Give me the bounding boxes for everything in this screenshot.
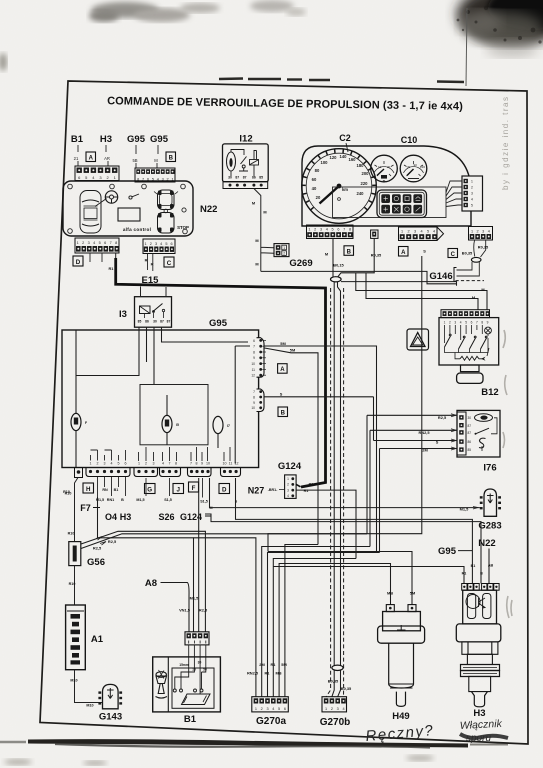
inner sub-box (140, 385, 208, 445)
speedometer dial (302, 149, 377, 224)
svg-text:A: A (280, 367, 285, 373)
svg-text:G270a: G270a (256, 716, 286, 727)
wire S to H3 pin B1 via G95 (236, 478, 473, 584)
svg-text:M10: M10 (70, 679, 77, 683)
svg-text:85: 85 (468, 448, 472, 452)
svg-text:4: 4 (93, 241, 95, 245)
wire S to I76 (374, 397, 458, 441)
display rectangle (118, 208, 140, 221)
scan smudge top-right blob (457, 0, 543, 57)
svg-text:20: 20 (316, 195, 321, 200)
svg-text:30: 30 (153, 320, 157, 324)
wire 2M to I76 (380, 449, 458, 553)
wire S from B strip (265, 396, 374, 398)
svg-text:7: 7 (253, 390, 255, 394)
svg-text:km: km (342, 187, 348, 192)
svg-text:R10: R10 (65, 492, 72, 496)
svg-text:R10: R10 (68, 532, 75, 536)
svg-text:sporu: sporu (466, 733, 491, 744)
wire R1 elbow from thick line (296, 484, 300, 486)
svg-text:RN2,5: RN2,5 (247, 671, 259, 676)
wire R2,5 upper from G56 (81, 534, 367, 549)
svg-text:3: 3 (88, 241, 90, 245)
svg-text:-BR1-: -BR1- (268, 488, 278, 492)
svg-text:2: 2 (150, 242, 152, 246)
svg-text:N27: N27 (248, 486, 265, 496)
wire M10 battery to G143 (75, 670, 103, 703)
connector A side strip (251, 338, 266, 378)
connector letter A (278, 364, 288, 374)
connector letter G (145, 484, 156, 494)
svg-text:S1,5: S1,5 (200, 500, 208, 504)
svg-text:87: 87 (235, 176, 239, 180)
switch button (457, 373, 483, 383)
wire G270a pin3 to I76 (268, 553, 380, 697)
wire to H49 5M (268, 552, 412, 605)
svg-text:240: 240 (357, 191, 365, 196)
svg-text:2: 2 (449, 320, 451, 324)
svg-text:12: 12 (235, 462, 239, 466)
wire bracket to oval (457, 262, 480, 276)
svg-text:5: 5 (278, 707, 280, 711)
svg-text:2M: 2M (422, 448, 427, 453)
wires R R (148, 254, 153, 272)
bottom bus (445, 338, 489, 353)
wire R10 fuse to battery (74, 566, 76, 605)
pin K bottom-left of G95 (75, 468, 83, 478)
svg-text:R1: R1 (309, 483, 314, 487)
svg-text:5: 5 (471, 204, 473, 208)
svg-text:B0,35: B0,35 (328, 679, 339, 684)
switch contact symbol (129, 194, 139, 199)
svg-text:G270b: G270b (320, 717, 351, 728)
inner connections (482, 418, 497, 451)
scan smudge top-left (89, 0, 306, 22)
svg-text:I7: I7 (227, 424, 230, 428)
svg-text:N22: N22 (478, 538, 495, 549)
svg-text:4: 4 (460, 320, 462, 324)
svg-text:2: 2 (477, 229, 479, 233)
inner wiring box across dial (333, 187, 447, 218)
svg-text:3: 3 (155, 242, 157, 246)
wire G270a pin1 RN2,5 (194, 538, 256, 697)
svg-text:J: J (176, 487, 180, 494)
moving contact plate (182, 694, 211, 705)
wire G270a pin4 R1 from N27 (273, 559, 356, 697)
svg-text:85: 85 (138, 320, 142, 324)
svg-text:D: D (76, 259, 81, 266)
svg-text:B1: B1 (114, 488, 119, 492)
svg-text:2M: 2M (259, 662, 264, 667)
svg-text:O4: O4 (105, 512, 117, 522)
needle (320, 186, 340, 204)
connector letter C (448, 249, 458, 258)
svg-text:alfa control: alfa control (123, 227, 151, 232)
bracket (454, 268, 457, 282)
svg-text:F7: F7 (80, 503, 91, 513)
svg-text:7: 7 (476, 320, 478, 324)
svg-text:C: C (451, 252, 456, 258)
svg-text:87: 87 (243, 176, 247, 180)
svg-text:4: 4 (111, 462, 113, 466)
svg-text:H3: H3 (473, 708, 485, 719)
svg-text:B12: B12 (481, 387, 498, 398)
svg-text:3: 3 (320, 228, 322, 232)
svg-text:1: 1 (471, 180, 473, 184)
wire stubs below D strip (90, 253, 102, 262)
svg-text:87: 87 (468, 431, 472, 435)
svg-text:B: B (281, 411, 286, 417)
svg-text:I76: I76 (483, 463, 496, 474)
svg-text:86: 86 (252, 176, 256, 180)
svg-text:3: 3 (104, 462, 106, 466)
lamp with cross (485, 327, 492, 334)
svg-text:6: 6 (337, 228, 339, 232)
svg-text:4: 4 (433, 230, 435, 234)
connector strip G95 2 (1..3) (134, 462, 158, 477)
svg-text:B0,35: B0,35 (341, 686, 352, 691)
sensor H3 (456, 584, 501, 707)
svg-text:B1: B1 (71, 134, 84, 145)
svg-text:7: 7 (169, 462, 171, 466)
svg-text:1: 1 (325, 707, 327, 711)
relay I76 body (457, 410, 500, 457)
relay I12 (223, 144, 269, 182)
car icon left (80, 191, 101, 234)
svg-text:4: 4 (471, 198, 473, 202)
single pin connector under speedo (371, 230, 378, 238)
svg-text:3: 3 (471, 192, 473, 196)
svg-text:1: 1 (283, 246, 285, 250)
svg-text:87: 87 (160, 320, 164, 324)
svg-text:4: 4 (162, 462, 164, 466)
wire A8 to B1 connector (161, 583, 190, 632)
connector G270b (322, 697, 347, 712)
svg-text:4: 4 (287, 494, 289, 498)
connector N27/G124 (285, 475, 297, 499)
wire VN1,5 from bus (98, 497, 194, 632)
connector letter F (189, 482, 199, 492)
svg-text:5: 5 (332, 228, 334, 232)
svg-text:8: 8 (175, 462, 177, 466)
left margin mark (0, 53, 7, 71)
svg-text:M: M (154, 158, 158, 163)
dashed shield wire right (343, 288, 345, 697)
svg-text:4: 4 (488, 229, 490, 233)
svg-text:10: 10 (223, 462, 227, 466)
svg-text:H3: H3 (100, 134, 112, 145)
wire splice to G146 (341, 282, 457, 286)
svg-text:AR: AR (104, 156, 110, 161)
resistor (460, 356, 483, 360)
connector letter D (219, 484, 230, 494)
connector letter J (173, 484, 184, 494)
faint marks right margin (503, 330, 512, 618)
wire stub pin4 (481, 240, 486, 257)
wire R10 from pin K (75, 478, 79, 542)
wire S from cluster A down to interchange (268, 256, 422, 552)
wire RN2,5 to I76 (370, 430, 457, 546)
svg-text:15mm: 15mm (179, 663, 189, 667)
svg-text:H3: H3 (120, 512, 132, 522)
wire arrows into pins (451, 414, 456, 450)
svg-text:RN: RN (102, 488, 108, 492)
svg-text:G283: G283 (478, 521, 501, 532)
connector block right of cluster (462, 176, 483, 211)
svg-text:4: 4 (160, 242, 162, 246)
svg-text:8: 8 (481, 320, 483, 324)
svg-text:2: 2 (331, 707, 333, 711)
svg-text:M: M (255, 262, 258, 267)
svg-text:70: 70 (407, 165, 411, 169)
svg-text:2: 2 (287, 483, 289, 487)
connector letter D (73, 256, 83, 266)
battery A1 (66, 605, 86, 670)
svg-text:I12: I12 (239, 134, 252, 145)
dashed wire (456, 280, 485, 282)
svg-text:R1: R1 (265, 671, 271, 676)
short stubs under strips (98, 477, 203, 498)
svg-text:B: B (121, 498, 124, 502)
svg-text:A8: A8 (145, 578, 157, 589)
wire N22 to H3 pin AB (488, 549, 490, 584)
wire R1 to H3 (273, 567, 464, 584)
contact switches (445, 334, 488, 349)
fuse G56 (69, 542, 81, 566)
svg-text:60: 60 (312, 177, 317, 182)
svg-text:C2: C2 (339, 133, 351, 143)
connector letter A (399, 247, 409, 257)
svg-text:30: 30 (228, 176, 232, 180)
svg-text:140: 140 (340, 154, 348, 159)
svg-text:6: 6 (253, 339, 255, 343)
thick wire to E15 ground (116, 258, 326, 487)
svg-text:5: 5 (165, 242, 167, 246)
connector letter B (278, 407, 288, 417)
connector letter A (86, 152, 96, 162)
svg-text:G269: G269 (289, 258, 312, 269)
steering wheel icon (105, 191, 117, 203)
svg-text:5M: 5M (410, 591, 415, 596)
svg-text:2: 2 (407, 230, 409, 234)
connector B side strip (251, 389, 264, 412)
svg-text:R2,5: R2,5 (108, 539, 117, 544)
wire M to B12 pin7 (366, 273, 478, 310)
svg-text:6: 6 (171, 242, 173, 246)
connector strip N22 bottom-right (1..6) (143, 239, 175, 254)
svg-text:5M: 5M (290, 348, 295, 353)
svg-text:R: R (151, 262, 154, 267)
svg-text:87: 87 (167, 320, 171, 324)
connector letter B (344, 246, 354, 256)
control unit N22 body (63, 181, 193, 236)
svg-text:B0,35: B0,35 (462, 251, 473, 256)
switch B12 body (439, 318, 499, 365)
svg-text:50: 50 (203, 668, 207, 672)
svg-text:87: 87 (468, 424, 472, 428)
svg-text:4: 4 (326, 228, 328, 232)
svg-text:5M: 5M (281, 662, 286, 667)
inner wire right (235, 346, 250, 464)
wire R1 (115, 253, 117, 260)
svg-text:30: 30 (468, 416, 472, 420)
svg-text:R1: R1 (462, 572, 467, 576)
gauge left (371, 155, 398, 183)
border frame (40, 81, 528, 744)
svg-text:2: 2 (82, 241, 84, 245)
svg-text:R0,35: R0,35 (478, 245, 489, 250)
svg-text:7: 7 (343, 228, 345, 232)
svg-text:B0,15: B0,15 (333, 263, 344, 268)
svg-text:3: 3 (153, 462, 155, 466)
pointer line (95, 199, 107, 207)
svg-text:S: S (423, 249, 426, 254)
relay I3 (135, 297, 172, 328)
svg-text:R: R (145, 258, 148, 263)
wire M from cluster to splice (332, 239, 334, 278)
svg-text:1: 1 (255, 707, 257, 711)
svg-text:8: 8 (196, 462, 198, 466)
connector strip under I12 (223, 182, 268, 189)
svg-text:3: 3 (454, 320, 456, 324)
svg-text:5M: 5M (280, 341, 285, 346)
svg-text:MB: MB (387, 591, 393, 596)
svg-text:A1: A1 (91, 634, 104, 645)
svg-text:H: H (86, 486, 91, 493)
svg-text:2: 2 (471, 186, 473, 190)
svg-text:MB: MB (275, 671, 281, 676)
svg-text:F: F (85, 421, 87, 425)
svg-text:1: 1 (145, 242, 147, 246)
internal pin stubs (445, 325, 489, 343)
wires I3 pins into box (76, 327, 248, 385)
svg-text:M1,5: M1,5 (190, 596, 199, 601)
svg-text:A: A (89, 156, 94, 162)
svg-text:N22: N22 (200, 204, 217, 215)
svg-text:1: 1 (401, 230, 403, 234)
svg-text:4: 4 (342, 707, 344, 711)
svg-text:220: 220 (361, 181, 369, 186)
svg-text:11: 11 (229, 462, 233, 466)
wire R2,5 lower from G56 to B1 (81, 531, 205, 632)
svg-text:80: 80 (315, 168, 320, 173)
coil symbol (475, 414, 493, 422)
svg-text:10: 10 (251, 406, 255, 410)
connector strip B12 top (441, 310, 490, 318)
svg-text:S26: S26 (158, 512, 174, 522)
dark dashes above frame (219, 79, 464, 83)
svg-text:90: 90 (414, 163, 418, 167)
svg-text:21: 21 (74, 156, 79, 161)
ground point G143 (98, 684, 122, 708)
svg-text:11: 11 (252, 368, 256, 372)
svg-text:5: 5 (427, 230, 429, 234)
svg-text:M: M (481, 287, 484, 292)
svg-text:AB: AB (488, 564, 494, 568)
svg-text:6: 6 (104, 241, 106, 245)
svg-text:by i gdzie ind. tras: by i gdzie ind. tras (501, 96, 510, 190)
svg-text:C: C (167, 260, 172, 267)
wire 5M lower (265, 348, 319, 545)
mounting holes (68, 184, 188, 234)
svg-text:R2,5: R2,5 (438, 415, 447, 420)
svg-text:180: 180 (357, 163, 365, 168)
tick C2 (346, 143, 348, 152)
lamp symbol 2 (162, 395, 179, 445)
wire G270a pin2 to I76 (262, 547, 370, 697)
wire stubs labels to pins (78, 145, 158, 168)
svg-text:7: 7 (190, 462, 192, 466)
svg-text:9: 9 (487, 320, 489, 324)
svg-text:12: 12 (251, 374, 255, 378)
svg-text:R1: R1 (271, 662, 277, 667)
wires connector to B1 box (189, 645, 206, 694)
svg-text:G95: G95 (127, 134, 146, 145)
svg-text:G: G (147, 487, 152, 494)
wire B0,35 solid 2 (338, 282, 341, 697)
connector G269 (274, 244, 289, 257)
svg-text:S: S (280, 391, 283, 396)
svg-text:10: 10 (378, 165, 382, 169)
button panel (377, 190, 427, 218)
svg-text:86: 86 (145, 320, 149, 324)
svg-text:10: 10 (206, 462, 210, 466)
svg-text:1: 1 (308, 228, 310, 232)
bottom page-edge dark band (0, 739, 508, 747)
svg-text:3: 3 (266, 707, 268, 711)
splice oval (331, 277, 342, 282)
svg-text:3: 3 (482, 229, 484, 233)
spring curl (479, 438, 486, 448)
svg-text:3: 3 (337, 707, 339, 711)
contact pins (173, 668, 206, 692)
switch H49 (378, 605, 425, 707)
svg-text:6: 6 (284, 707, 286, 711)
connector G270a (252, 697, 288, 712)
svg-text:8: 8 (349, 228, 351, 232)
svg-text:5: 5 (118, 462, 120, 466)
svg-text:100: 100 (321, 160, 329, 165)
connector letter B (166, 152, 176, 162)
svg-text:1: 1 (138, 462, 140, 466)
svg-text:8: 8 (253, 350, 255, 354)
svg-text:9: 9 (201, 462, 203, 466)
inner switch box (172, 668, 214, 708)
ground point G283 (480, 489, 501, 516)
svg-text:S1,5: S1,5 (164, 498, 172, 502)
connector strip N22 bottom-left (1..8) (75, 238, 119, 253)
connector strip G95 1 (1..6) (86, 462, 130, 477)
svg-text:1: 1 (90, 462, 92, 466)
svg-text:G95: G95 (209, 318, 228, 329)
svg-text:4: 4 (272, 707, 274, 711)
svg-text:6: 6 (125, 462, 127, 466)
svg-text:9: 9 (253, 356, 255, 360)
connector letter C (164, 257, 174, 267)
wire arrows R2,5 (96, 537, 106, 546)
svg-text:G95: G95 (438, 546, 457, 557)
wire G270a pin6 5M (285, 545, 318, 697)
svg-text:2: 2 (283, 252, 285, 256)
wire M to B12 pin8 (356, 273, 487, 310)
svg-text:9: 9 (253, 401, 255, 405)
bottom-left faint marks (4, 759, 32, 765)
wire stub pin2 (474, 240, 475, 257)
lamp symbol 1 (71, 413, 87, 467)
svg-text:1: 1 (287, 477, 289, 481)
hazard warning symbol (407, 329, 429, 350)
svg-text:H49: H49 (392, 711, 409, 722)
